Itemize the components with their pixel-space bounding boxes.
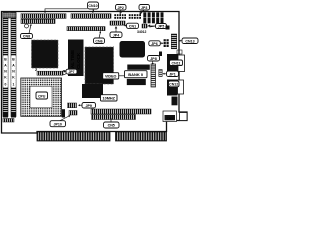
DRAM bar row 1 — [127, 65, 150, 70]
label 10MHZ — [101, 95, 118, 101]
svg-text:CN5: CN5 — [108, 124, 115, 128]
label JP7 — [63, 69, 77, 74]
svg-text:CN13: CN13 — [185, 39, 194, 43]
label VIDEO — [103, 73, 125, 79]
svg-text:34012: 34012 — [137, 30, 147, 34]
svg-text:BANK 0: BANK 0 — [128, 72, 144, 77]
svg-text:JP8: JP8 — [150, 57, 156, 61]
ext connector right 1 — [178, 55, 185, 72]
small block right of H1 — [62, 109, 65, 117]
jumper block JP2 — [114, 14, 126, 19]
svg-text:JP2: JP2 — [117, 6, 123, 10]
svg-text:CN10: CN10 — [88, 4, 97, 8]
svg-text:JP7: JP7 — [68, 70, 74, 74]
svg-text:CLOCK: CLOCK — [76, 52, 81, 69]
svg-text:JP4: JP4 — [113, 33, 119, 37]
PGA socket (CPU) — [21, 78, 62, 116]
chip A (QFP U1) — [32, 40, 59, 68]
DIP chip block (2 rows x 5) — [143, 12, 163, 23]
label JP6 — [149, 41, 164, 46]
connector strip CN1 — [110, 21, 125, 25]
small part below DIP block — [166, 26, 170, 30]
svg-text:JP9: JP9 — [85, 104, 91, 108]
board bottom edge steps — [37, 121, 167, 142]
label JP1 — [163, 71, 179, 77]
svg-text:1: 1 — [13, 83, 15, 87]
label CN1 — [124, 23, 139, 28]
label CN5 bottom — [104, 118, 120, 129]
mounting hole — [62, 71, 66, 75]
small capacitor part — [159, 52, 162, 57]
label JP10 — [50, 115, 71, 126]
bottom right protrusion — [180, 113, 188, 121]
label CN8 — [21, 24, 33, 39]
label CN13 (right outside) — [179, 38, 199, 44]
svg-text:CPU: CPU — [38, 94, 46, 98]
vertical striped connector right of DRAM — [151, 64, 156, 87]
svg-text:10MHZ: 10MHZ — [102, 97, 115, 101]
svg-text:JP10: JP10 — [53, 122, 61, 126]
header bar A bottom — [91, 109, 151, 114]
jumper grid JP6 — [164, 39, 169, 47]
header strip CN (top row left) — [21, 14, 66, 18]
label CN11 — [170, 60, 183, 66]
small block right edge lower — [172, 97, 178, 106]
svg-text:CN6: CN6 — [95, 39, 102, 43]
svg-text:CN1: CN1 — [129, 24, 136, 28]
SIMM latch block — [3, 13, 16, 19]
small box top right — [177, 50, 182, 54]
jumper JP9 pads — [68, 103, 77, 108]
svg-text:VIDEO: VIDEO — [105, 75, 117, 79]
label JP2 — [116, 5, 127, 15]
label JP3 — [139, 5, 150, 15]
svg-text:JP6: JP6 — [151, 42, 157, 46]
DRAM bar row 2 — [127, 79, 146, 85]
chip B (large QFP) — [85, 47, 114, 84]
edge connector fingers group 1 — [38, 132, 110, 141]
svg-text:JP5: JP5 — [158, 25, 164, 29]
black block CN12 — [167, 80, 178, 96]
bar inside bottom right box — [165, 115, 176, 120]
ext connector right 2 — [178, 80, 184, 94]
header strip row3 — [67, 27, 105, 31]
header strip (top row right) — [71, 14, 111, 18]
svg-text:0: 0 — [5, 83, 7, 87]
bottom right connector box — [163, 111, 177, 122]
label JP8 — [148, 56, 160, 66]
label JP4 — [110, 27, 122, 38]
black chip CN11 — [167, 54, 178, 72]
svg-text:JP3: JP3 — [141, 6, 147, 10]
svg-text:CN12: CN12 — [169, 83, 178, 87]
jumper JP10 pads — [69, 111, 77, 116]
label CN12 — [169, 81, 180, 87]
RTC chip (REAL TIME CLOCK) — [68, 40, 84, 77]
mounting hole — [25, 24, 29, 28]
chip C (rounded PLCC) — [120, 41, 146, 58]
svg-text:CN3: CN3 — [167, 116, 173, 120]
header strip below chip A — [37, 71, 63, 75]
chip D below chip B — [82, 84, 103, 98]
label BANK 0 — [125, 71, 148, 78]
SIMM foot blocks — [3, 113, 8, 118]
jumper block JP3 — [129, 14, 141, 19]
label JP9 — [78, 103, 96, 109]
SIMM socket BANK 1 — [11, 13, 16, 117]
small connector below SIMM — [3, 119, 14, 123]
label JP5 — [148, 24, 167, 29]
vertical striped connector top right — [171, 34, 176, 49]
board outline — [2, 12, 188, 134]
small part left of JP1 — [159, 70, 162, 77]
svg-text:CN11: CN11 — [172, 61, 181, 65]
header strip row2 — [21, 19, 55, 23]
label CN6 — [94, 31, 105, 44]
svg-text:CN8: CN8 — [23, 35, 30, 39]
header bar B bottom — [92, 115, 136, 120]
label CN10 — [44, 2, 99, 13]
svg-text:JP1: JP1 — [169, 72, 175, 76]
SIMM socket BANK 0 — [3, 13, 8, 117]
edge connector fingers group 2 — [116, 132, 166, 141]
jumper JP5 pads — [142, 24, 147, 28]
